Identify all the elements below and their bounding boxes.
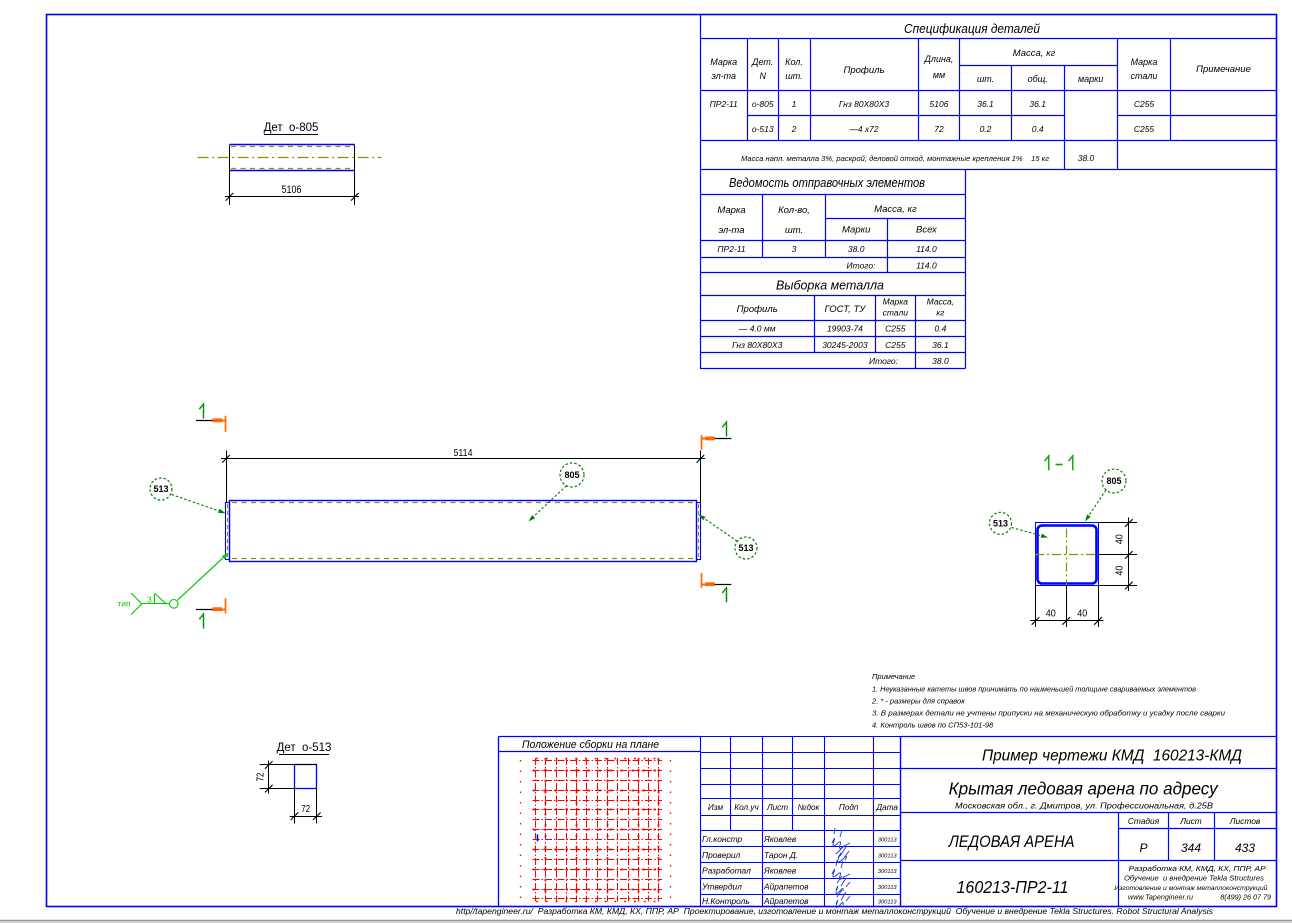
svg-text:3: 3 bbox=[792, 244, 797, 254]
svg-text:38.0: 38.0 bbox=[1078, 153, 1095, 163]
svg-text:Яковлев: Яковлев bbox=[763, 834, 797, 844]
svg-text:Изм: Изм bbox=[708, 803, 724, 812]
svg-text:Кол.: Кол. bbox=[785, 57, 803, 67]
svg-text:513: 513 bbox=[993, 519, 1008, 529]
svg-text:эл-та: эл-та bbox=[711, 71, 736, 81]
svg-text:5106: 5106 bbox=[282, 184, 302, 196]
svg-text:40: 40 bbox=[1114, 534, 1125, 544]
svg-text:стали: стали bbox=[1131, 71, 1158, 81]
svg-text:805: 805 bbox=[564, 470, 579, 480]
svg-text:Утвердил: Утвердил bbox=[701, 882, 742, 892]
svg-text:Н.Контроль: Н.Контроль bbox=[702, 896, 750, 906]
svg-text:шт.: шт. bbox=[785, 71, 802, 81]
svg-text:72: 72 bbox=[256, 772, 267, 781]
svg-text:Р: Р bbox=[1139, 841, 1147, 855]
svg-text:Лист: Лист bbox=[1179, 816, 1202, 826]
svg-text:Кол-во,: Кол-во, bbox=[778, 205, 810, 216]
svg-text:Крытая ледовая арена по адресу: Крытая ледовая арена по адресу bbox=[949, 779, 1219, 799]
svg-text:160213-ПР2-11: 160213-ПР2-11 bbox=[957, 877, 1069, 897]
svg-text:Масса, кг: Масса, кг bbox=[1013, 48, 1056, 59]
svg-text:Марка: Марка bbox=[883, 297, 909, 307]
svg-text:ПР2-11: ПР2-11 bbox=[710, 99, 738, 109]
svg-text:ГОСТ, ТУ: ГОСТ, ТУ bbox=[824, 304, 866, 315]
svg-text:Итого:: Итого: bbox=[869, 356, 899, 366]
svg-text:Примечание: Примечание bbox=[1196, 64, 1251, 75]
svg-text:5114: 5114 bbox=[454, 447, 473, 459]
svg-text:19903-74: 19903-74 bbox=[827, 324, 863, 334]
svg-text:Московская обл., г. Дмитров, у: Московская обл., г. Дмитров, ул. Професс… bbox=[955, 801, 1213, 811]
svg-text:38.0: 38.0 bbox=[848, 244, 865, 254]
svg-text:www.Tapengineer.ru: www.Tapengineer.ru bbox=[1128, 893, 1193, 902]
svg-text:Дата: Дата bbox=[875, 803, 898, 812]
svg-text:Проверил: Проверил bbox=[702, 850, 741, 860]
svg-text:ПР2-11: ПР2-11 bbox=[717, 244, 745, 254]
svg-text:Гл.констр: Гл.констр bbox=[702, 834, 743, 844]
svg-text:0.4: 0.4 bbox=[934, 324, 946, 334]
svg-text:Гнз 80Х80Х3: Гнз 80Х80Х3 bbox=[732, 340, 782, 350]
svg-text:36.1: 36.1 bbox=[932, 340, 949, 350]
svg-text:Пример чертежи КМД 160213-КМД: Пример чертежи КМД 160213-КМД bbox=[982, 748, 1242, 765]
svg-text:513: 513 bbox=[738, 543, 753, 553]
svg-text:4. Контроль швов по СП53-101-9: 4. Контроль швов по СП53-101-98 bbox=[872, 721, 994, 730]
svg-text:Профиль: Профиль bbox=[737, 304, 778, 315]
svg-text:Айрапетов: Айрапетов bbox=[763, 882, 809, 892]
svg-text:ЛЕДОВАЯ АРЕНА: ЛЕДОВАЯ АРЕНА bbox=[948, 833, 1075, 851]
svg-text:300113: 300113 bbox=[878, 869, 898, 875]
svg-text:2. * - размеры для справок: 2. * - размеры для справок bbox=[871, 697, 965, 706]
svg-text:72: 72 bbox=[301, 804, 310, 815]
svg-text:Дет о-513: Дет о-513 bbox=[277, 742, 332, 754]
svg-text:Масса напл. металла 3%, раскро: Масса напл. металла 3%, раскрой, деловой… bbox=[741, 154, 1049, 163]
svg-text:3: 3 bbox=[147, 596, 152, 605]
svg-text:1: 1 bbox=[792, 99, 797, 109]
svg-text:мм: мм bbox=[933, 70, 945, 80]
svg-text:5106: 5106 bbox=[930, 99, 949, 109]
svg-text:стали: стали bbox=[883, 308, 909, 318]
svg-text:Айрапетов: Айрапетов bbox=[763, 896, 809, 906]
svg-text:о-513: о-513 bbox=[752, 124, 774, 134]
svg-text:Дет о-805: Дет о-805 bbox=[264, 122, 319, 134]
svg-text:тип: тип bbox=[117, 599, 131, 609]
svg-text:114.0: 114.0 bbox=[916, 261, 937, 271]
svg-text:344: 344 bbox=[1181, 841, 1201, 855]
svg-text:Кол.уч: Кол.уч bbox=[734, 803, 759, 812]
svg-text:36.1: 36.1 bbox=[1029, 99, 1046, 109]
svg-text:http//tapengineer.ru/ Разрабо: http//tapengineer.ru/ Разработка КМ, КМД… bbox=[456, 906, 1214, 916]
svg-text:Ведомость отправочных элементо: Ведомость отправочных элементов bbox=[729, 176, 925, 190]
svg-text:кг: кг bbox=[936, 308, 944, 318]
svg-text:Длина,: Длина, bbox=[924, 54, 954, 64]
svg-text:114.0: 114.0 bbox=[916, 244, 937, 254]
svg-text:38.0: 38.0 bbox=[932, 356, 949, 366]
svg-text:Положение сборки на плане: Положение сборки на плане bbox=[522, 739, 659, 751]
svg-text:2: 2 bbox=[791, 124, 797, 134]
svg-text:0.4: 0.4 bbox=[1032, 124, 1044, 134]
svg-text:Примечание: Примечание bbox=[872, 672, 915, 681]
svg-text:шт.: шт. bbox=[977, 74, 994, 84]
svg-text:—4 х72: —4 х72 bbox=[848, 124, 879, 134]
svg-text:300113: 300113 bbox=[878, 853, 898, 859]
svg-text:40: 40 bbox=[1046, 609, 1056, 620]
svg-text:Всех: Всех bbox=[916, 225, 938, 236]
svg-text:Спецификация деталей: Спецификация деталей bbox=[904, 21, 1040, 36]
svg-text:общ.: общ. bbox=[1028, 74, 1048, 84]
svg-text:Итого:: Итого: bbox=[847, 261, 877, 271]
svg-text:30245-2003: 30245-2003 bbox=[822, 340, 868, 350]
svg-text:433: 433 bbox=[1235, 841, 1255, 855]
svg-text:Лист: Лист bbox=[766, 803, 788, 812]
svg-text:Разработка КМ, КМД, КХ, ППР, А: Разработка КМ, КМД, КХ, ППР, АР bbox=[1129, 864, 1267, 873]
svg-text:300113: 300113 bbox=[878, 885, 898, 891]
svg-text:С255: С255 bbox=[885, 324, 906, 334]
svg-text:1. Неуказанные катеты швов при: 1. Неуказанные катеты швов принимать по … bbox=[872, 685, 1196, 694]
svg-text:513: 513 bbox=[153, 484, 168, 494]
svg-text:Гнз 80Х80Х3: Гнз 80Х80Х3 bbox=[839, 99, 889, 109]
svg-text:0.2: 0.2 bbox=[980, 124, 992, 134]
svg-text:— 4.0 мм: — 4.0 мм bbox=[738, 324, 776, 334]
svg-text:Профиль: Профиль bbox=[843, 65, 884, 76]
svg-text:Стадия: Стадия bbox=[1128, 816, 1160, 826]
svg-text:№док: №док bbox=[798, 803, 821, 812]
svg-text:Дет.: Дет. bbox=[751, 57, 773, 67]
svg-text:Обучение и внедрение Tekla St: Обучение и внедрение Tekla Structures bbox=[1124, 874, 1264, 883]
svg-text:о-805: о-805 bbox=[752, 99, 774, 109]
svg-text:С255: С255 bbox=[885, 340, 906, 350]
svg-text:марки: марки bbox=[1078, 74, 1103, 84]
svg-text:шт.: шт. bbox=[785, 225, 803, 236]
svg-text:Марка: Марка bbox=[717, 205, 745, 216]
svg-text:Подп: Подп bbox=[839, 803, 859, 812]
svg-text:40: 40 bbox=[1114, 565, 1125, 575]
svg-text:72: 72 bbox=[934, 124, 944, 134]
svg-text:Марка: Марка bbox=[710, 57, 737, 67]
svg-text:3. В размерах детали не учтены: 3. В размерах детали не учтены припуски … bbox=[872, 709, 1226, 718]
svg-text:40: 40 bbox=[1077, 609, 1087, 620]
svg-text:N: N bbox=[759, 71, 766, 81]
svg-text:805: 805 bbox=[1106, 476, 1121, 486]
svg-text:эл-та: эл-та bbox=[718, 225, 744, 236]
svg-text:300113: 300113 bbox=[878, 899, 898, 905]
svg-text:Разработал: Разработал bbox=[702, 866, 751, 876]
svg-text:Масса, кг: Масса, кг bbox=[874, 204, 917, 215]
svg-text:Листов: Листов bbox=[1229, 816, 1261, 826]
svg-text:С255: С255 bbox=[1134, 124, 1155, 134]
svg-text:С255: С255 bbox=[1134, 99, 1155, 109]
svg-text:Тарон Д.: Тарон Д. bbox=[764, 850, 798, 860]
svg-text:Выборка металла: Выборка металла bbox=[776, 279, 884, 293]
svg-text:Изготовление и монтаж металлок: Изготовление и монтаж металлоконструкций bbox=[1114, 884, 1267, 892]
svg-text:Масса,: Масса, bbox=[927, 297, 955, 307]
svg-text:36.1: 36.1 bbox=[977, 99, 994, 109]
svg-text:Яковлев: Яковлев bbox=[763, 866, 797, 876]
svg-text:300113: 300113 bbox=[878, 837, 898, 843]
svg-text:8(499) 26 07 79: 8(499) 26 07 79 bbox=[1220, 893, 1271, 902]
svg-text:Марки: Марки bbox=[842, 225, 871, 236]
svg-text:Марка: Марка bbox=[1131, 57, 1158, 67]
